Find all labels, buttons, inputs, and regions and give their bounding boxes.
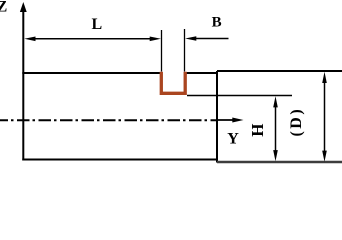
svg-text:H: H — [248, 123, 267, 136]
dimension B line with arrowhead (points left, tail to the right) — [185, 36, 228, 41]
centerline (dash-dot) — [0, 119, 216, 121]
Y axis arrow — [217, 118, 244, 123]
shaft left section top edge (right of groove) — [186, 72, 218, 74]
shaft step line — [216, 71, 218, 163]
shaft right section top edge — [217, 70, 342, 72]
Z axis (vertical line with arrowhead, coincides with shaft left edge) — [20, 2, 27, 161]
shaft left section bottom edge — [22, 159, 218, 161]
shaft left section top edge (left of groove) — [22, 72, 160, 74]
svg-text:(D): (D) — [288, 107, 305, 137]
shaft right section bottom edge — [217, 161, 342, 163]
svg-text:Z: Z — [0, 0, 7, 16]
dimension H (vertical, from groove bottom line to bottom edge) — [273, 96, 278, 161]
extension line at groove right wall — [184, 29, 186, 72]
svg-text:L: L — [91, 16, 102, 33]
svg-text:B: B — [212, 15, 222, 31]
keyway groove (brown U) — [161, 72, 185, 94]
extension line at groove left wall — [161, 30, 163, 72]
dimension L line with arrowheads — [24, 37, 161, 42]
groove bottom extension line — [187, 95, 292, 97]
svg-text:Y: Y — [227, 131, 239, 148]
dimension (D) (vertical, full right-section diameter) — [322, 72, 327, 162]
